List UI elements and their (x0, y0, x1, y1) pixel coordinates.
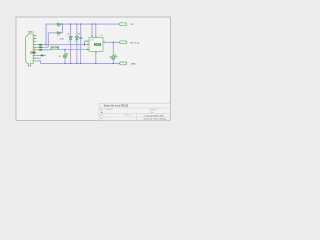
svg-text:R1: R1 (52, 47, 54, 49)
LED D6 (63, 53, 68, 58)
svg-text:Drawn by: Serial Design: Drawn by: Serial Design (144, 118, 167, 120)
U1 pin stubs (87, 35, 106, 53)
net label pin6 (39, 49, 42, 51)
svg-text:D1: D1 (58, 26, 60, 28)
svg-text:Size: Size (100, 109, 103, 111)
svg-text:RS-232: RS-232 (130, 42, 140, 44)
wire pin8 stub (37, 54, 47, 56)
svg-text:4148: 4148 (60, 39, 64, 41)
svg-text:1: 1 (87, 40, 88, 42)
wire ground rail (37, 61, 120, 64)
wire U1 bottom pin (95, 51, 97, 63)
wire row pin6 through R1 to U1 pin3 (37, 49, 89, 51)
net label TXD (39, 47, 42, 49)
svg-text:5: 5 (34, 57, 35, 59)
title block small labels (100, 108, 157, 120)
svg-text:3: 3 (87, 48, 88, 50)
svg-text:D2: D2 (58, 35, 60, 37)
junction dots (45, 23, 114, 64)
capacitor C1 (79, 37, 82, 38)
svg-text:U1: U1 (100, 35, 102, 37)
U1 pin numbers (87, 36, 105, 54)
svg-text:7: 7 (96, 52, 97, 54)
net flag RS-232 (120, 41, 127, 44)
wire pin9 stub (37, 57, 42, 59)
svg-text:D6: D6 (59, 56, 61, 58)
LED D5 (112, 54, 117, 59)
svg-text:GND: GND (131, 64, 136, 66)
svg-text:1: 1 (34, 35, 35, 37)
diode D2 (57, 32, 60, 35)
net label RXD (39, 44, 42, 46)
svg-text:DB9-1: DB9-1 (28, 31, 35, 33)
svg-text:Revision: Revision (151, 109, 157, 111)
net label RTS (40, 55, 43, 57)
resistor R1 (51, 47, 59, 49)
svg-text:A4: A4 (101, 111, 103, 114)
wire row pin4 to U1 pin2 (37, 44, 89, 46)
wire power bus top (46, 24, 120, 45)
svg-text:D5: D5 (109, 56, 111, 58)
wire zener DZ1 vertical (70, 24, 72, 63)
svg-text:GND: GND (30, 53, 35, 55)
svg-text:6: 6 (92, 36, 93, 38)
wire LED D5 vertical (112, 42, 114, 63)
wire LED D6 drop (64, 50, 66, 64)
power flag 5V (120, 23, 127, 26)
svg-text:6: 6 (34, 37, 35, 39)
sheet background (0, 0, 180, 135)
connector J1 DB9 shell (26, 34, 34, 66)
svg-text:5V1: 5V1 (74, 41, 77, 43)
svg-text:Select file to be RS232: Select file to be RS232 (104, 105, 129, 108)
svg-text:4: 4 (104, 41, 105, 43)
svg-text:2: 2 (34, 40, 35, 42)
svg-text:R2: R2 (116, 56, 118, 58)
svg-text:5: 5 (96, 36, 97, 38)
optocoupler U1 (89, 37, 103, 51)
wire U1 output to flag (103, 41, 120, 43)
connector J1 pins (33, 36, 36, 61)
svg-text:C:\Design\RS232.ddb: C:\Design\RS232.ddb (144, 115, 164, 117)
zener D3 (69, 37, 72, 40)
svg-text:5V1: 5V1 (68, 41, 71, 43)
svg-text:2: 2 (87, 43, 88, 45)
wire D2 branch (48, 24, 62, 47)
wire zener DZ2 vertical (76, 24, 78, 63)
svg-text:8: 8 (34, 49, 35, 51)
title block (99, 104, 170, 121)
wire U1 top pins (92, 24, 96, 37)
svg-text:D3: D3 (67, 33, 69, 35)
zener D4 (75, 37, 78, 40)
schematic page (16, 17, 170, 120)
net flag GND (120, 62, 127, 65)
wire row pin5 (37, 46, 49, 48)
diode D1 (57, 23, 60, 26)
wire capacitor C1 vertical (80, 24, 82, 63)
wire U1 pin1 link (85, 41, 89, 45)
svg-text:D4: D4 (78, 33, 80, 35)
connector J1 pin numbers (34, 35, 35, 59)
svg-text:1.0: 1.0 (151, 112, 153, 114)
svg-text:4N35: 4N35 (90, 40, 94, 42)
